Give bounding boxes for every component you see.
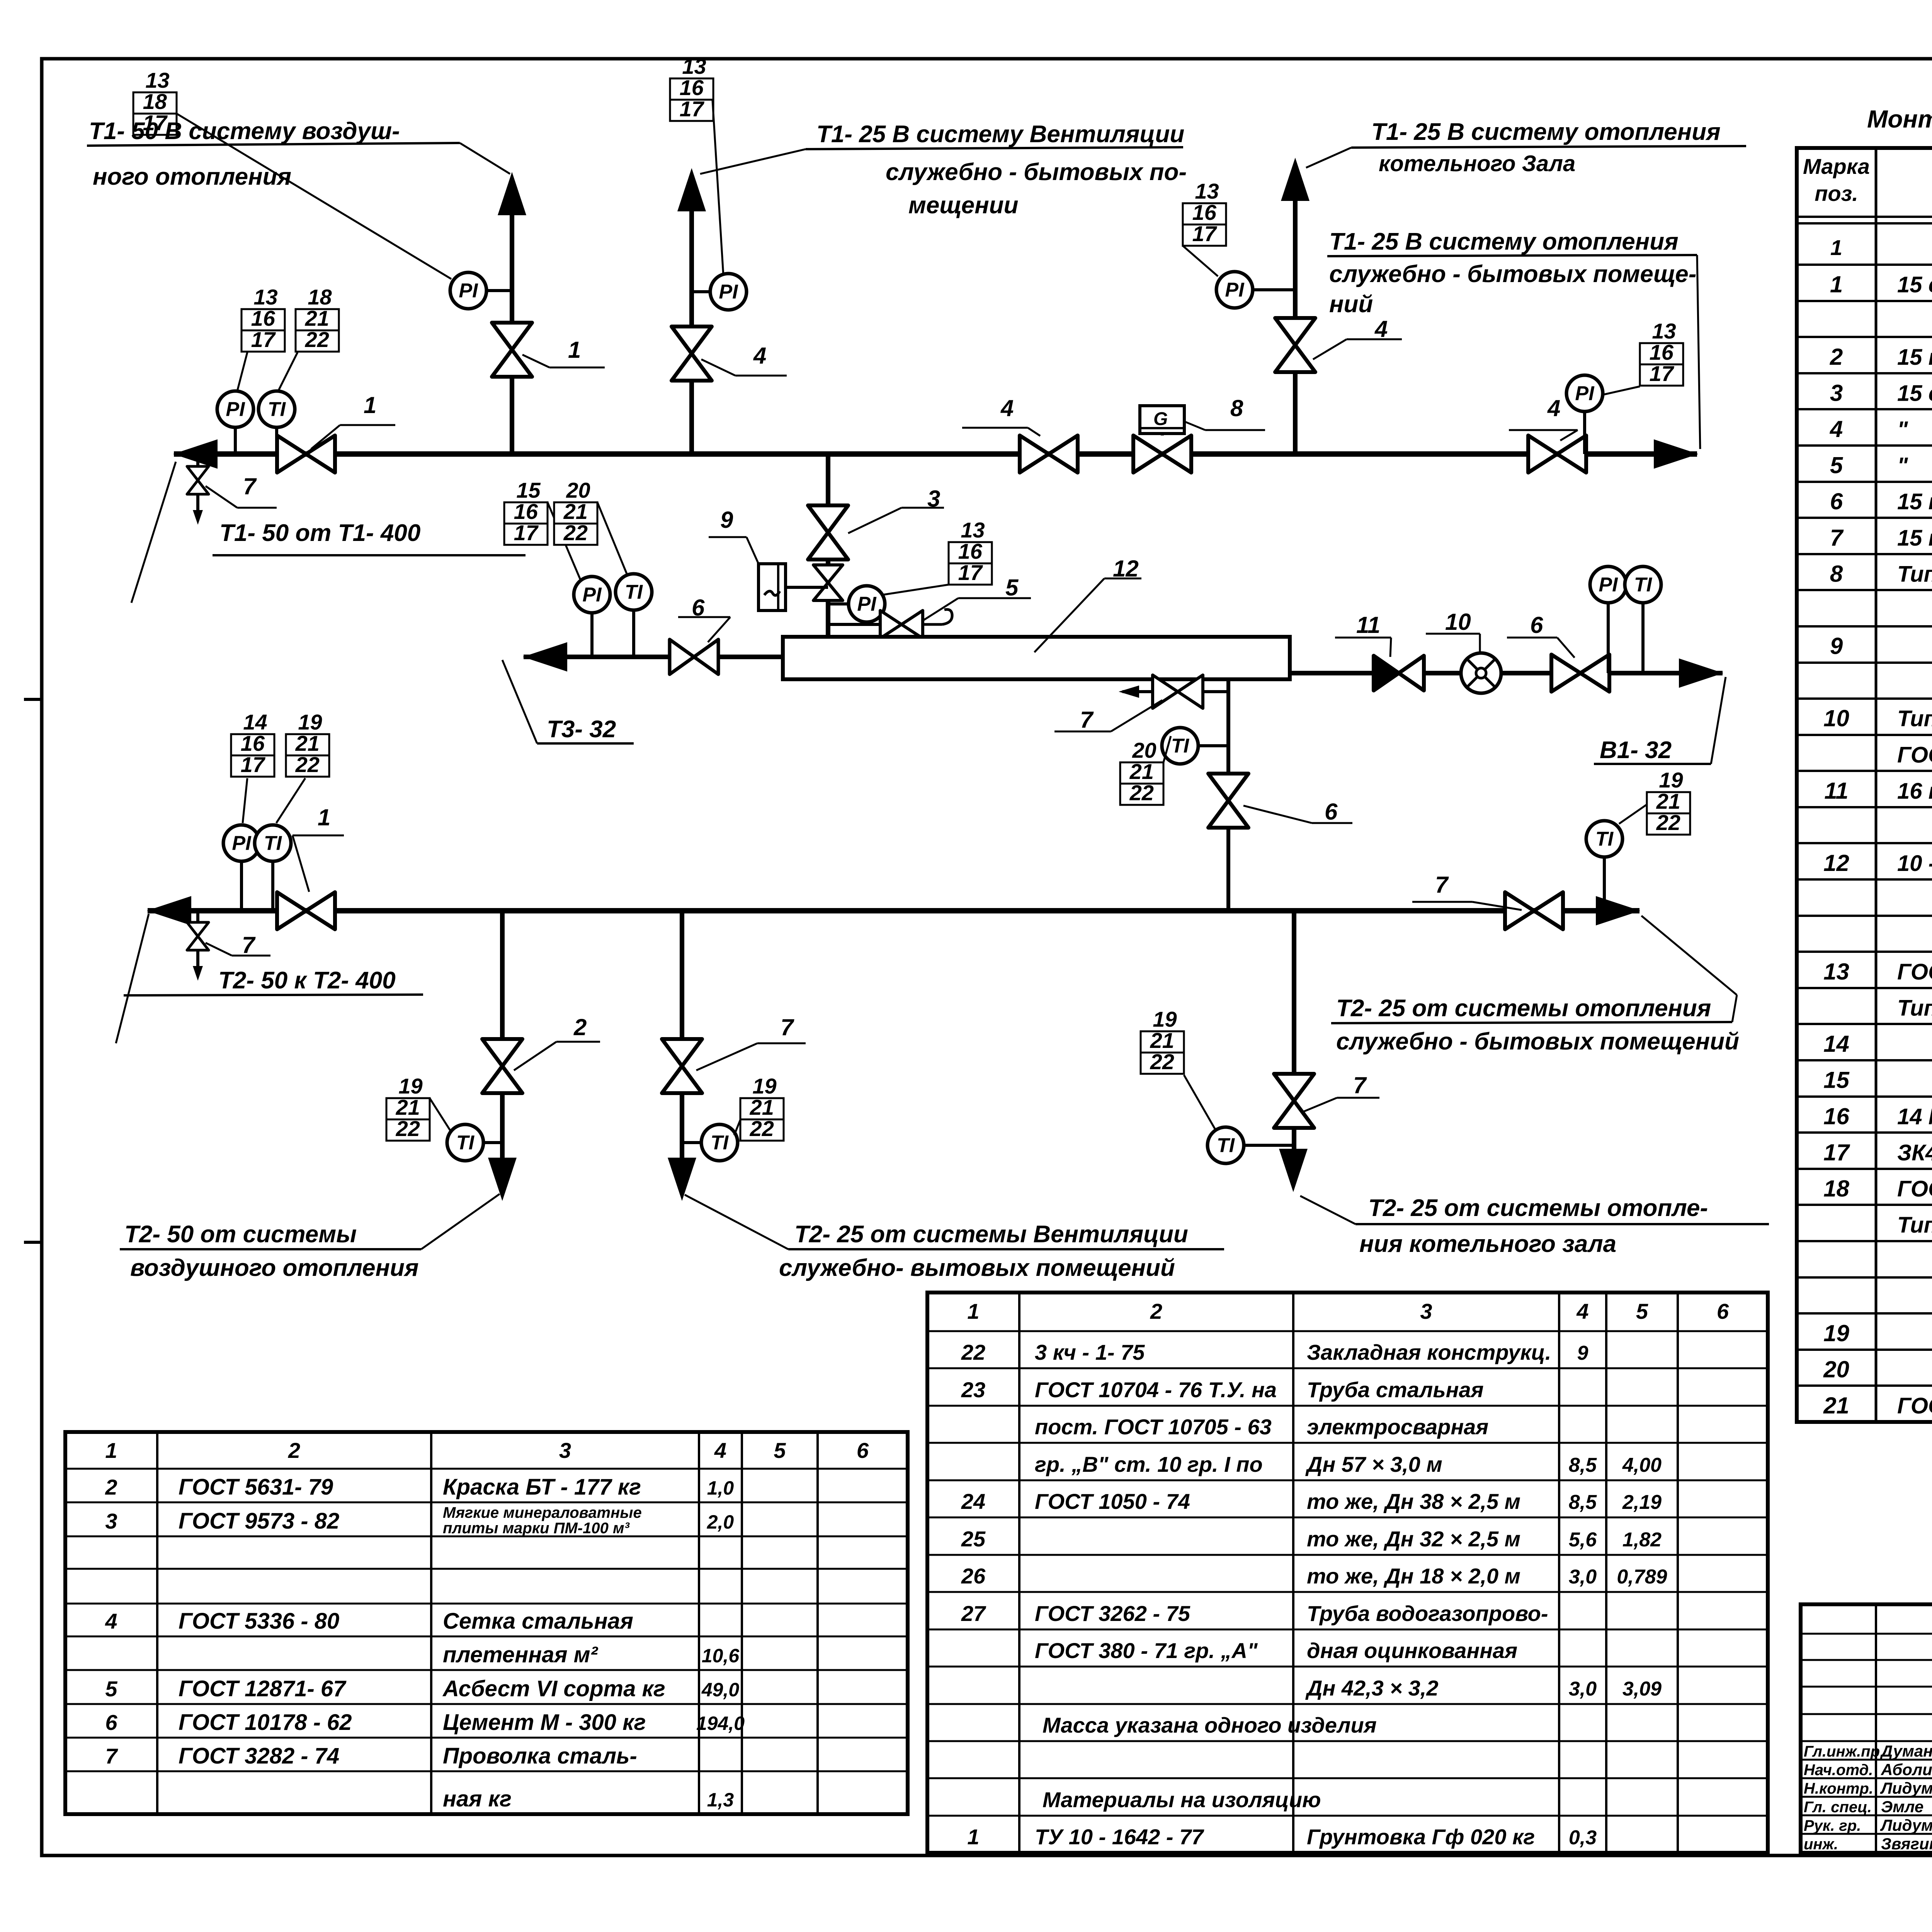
valve 3 (808, 505, 848, 560)
callout stack riser3 TI (1141, 1007, 1184, 1074)
callout stack return1 TI (386, 1074, 430, 1141)
label 7 T1 drain (206, 473, 277, 508)
callout stack T1 TI (296, 285, 339, 352)
svg-text:15 кч 16 п 1: 15 кч 16 п 1 (1897, 489, 1932, 514)
heater drain vertical (1226, 679, 1230, 911)
svg-text:воздушного отопления: воздушного отопления (130, 1255, 418, 1281)
svg-text:служебно- вытовых помещений: служебно- вытовых помещений (779, 1255, 1175, 1281)
svg-text:21: 21 (750, 1095, 774, 1119)
svg-text:1: 1 (967, 1825, 979, 1849)
gauge TI on T3 (616, 574, 652, 657)
svg-text:0,789: 0,789 (1617, 1566, 1667, 1588)
svg-text:19: 19 (398, 1074, 422, 1098)
svg-text:Тип УВК: Тип УВК (1897, 706, 1932, 731)
callout stack T1 PI (241, 285, 285, 352)
svg-text:ГОСТ 5631- 79: ГОСТ 5631- 79 (179, 1475, 333, 1500)
svg-text:Монтажная: Монтажная (1867, 105, 1932, 133)
svg-text:17: 17 (241, 752, 266, 777)
svg-text:Тип РР: Тип РР (1897, 561, 1932, 587)
label 6 T3 valve (678, 595, 730, 642)
valve 6 on B1 line (1551, 655, 1609, 692)
svg-text:5,6: 5,6 (1569, 1529, 1597, 1551)
valve 4 on riser 3 (1275, 318, 1315, 372)
label 7 T2 right valve (1412, 872, 1522, 910)
svg-text:Тип МТП: Тип МТП (1897, 995, 1932, 1020)
net label T1-25 ventilation (700, 121, 1187, 219)
svg-text:плетенная м²: плетенная м² (443, 1642, 599, 1667)
svg-text:10: 10 (1823, 706, 1849, 731)
gauge TI return riser 2 (682, 1124, 738, 1161)
arrow riser 2 top (677, 168, 706, 211)
arrow T2 right end (1596, 896, 1640, 925)
net label T2-50 to T2-400 (116, 914, 423, 1043)
svg-text:Материалы на изоляцию: Материалы на изоляцию (1043, 1787, 1321, 1812)
svg-text:17: 17 (251, 327, 276, 352)
svg-text:21: 21 (1129, 759, 1154, 784)
materials table middle grid (927, 1293, 1768, 1853)
callout stack riser3 (1183, 179, 1226, 246)
arrow T3 left end (523, 642, 567, 672)
svg-text:4: 4 (1830, 416, 1843, 442)
svg-text:27: 27 (961, 1601, 986, 1626)
svg-text:21: 21 (396, 1095, 420, 1119)
svg-text:TI: TI (625, 581, 643, 604)
net label T3-32 (502, 660, 634, 743)
svg-text:21: 21 (1823, 1393, 1849, 1418)
svg-text:21: 21 (563, 499, 588, 524)
svg-text:15 кч 19п: 15 кч 19п (1897, 526, 1932, 551)
svg-text:инж.: инж. (1804, 1836, 1838, 1853)
svg-text:16: 16 (1823, 1103, 1849, 1129)
return riser 2 vertical (680, 911, 684, 1159)
svg-text:ГОСТ 1050 - 74: ГОСТ 1050 - 74 (1035, 1489, 1190, 1514)
net label T1-25 service rooms heating (1327, 228, 1700, 449)
svg-text:Т2- 25 от системы отопле-: Т2- 25 от системы отопле- (1368, 1195, 1708, 1221)
drain valve 7 below T2 left (187, 911, 209, 981)
svg-text:2: 2 (288, 1438, 300, 1463)
callout stack T3 PI (504, 478, 548, 545)
svg-text:22: 22 (961, 1340, 985, 1364)
svg-text:PI: PI (1575, 383, 1595, 405)
label 1 T2 valve (293, 804, 344, 892)
svg-text:10,6: 10,6 (702, 1645, 740, 1667)
check valve 11 (1374, 656, 1424, 690)
svg-text:6: 6 (1830, 488, 1843, 514)
svg-text:1: 1 (364, 392, 376, 418)
svg-text:1: 1 (568, 337, 581, 363)
svg-text:ний: ний (1329, 291, 1373, 318)
valve 4 on T1 right (1528, 435, 1586, 473)
specification column numbers row (1830, 235, 1932, 260)
svg-text:22: 22 (1129, 781, 1154, 805)
regulator valve 9 with thermo relay (813, 565, 843, 600)
svg-text:4: 4 (105, 1609, 117, 1633)
svg-text:18: 18 (143, 89, 167, 114)
svg-text:Т2- 50 от системы: Т2- 50 от системы (124, 1221, 357, 1248)
svg-text:10 - 0 10 ст 34 - 588 - 68: 10 - 0 10 ст 34 - 588 - 68 (1897, 851, 1932, 876)
arrow T1 left end (173, 439, 218, 469)
svg-text:6: 6 (1717, 1299, 1729, 1323)
svg-text:TI: TI (1171, 735, 1190, 757)
svg-text:22: 22 (750, 1116, 774, 1141)
riser 1 vertical pipe (510, 195, 514, 454)
svg-text:5: 5 (774, 1438, 786, 1463)
gauge PI on T1 left (217, 391, 253, 454)
return riser 3 vertical (1292, 911, 1296, 1151)
svg-text:13: 13 (1823, 959, 1849, 985)
svg-text:7: 7 (105, 1744, 118, 1768)
svg-text:6: 6 (105, 1710, 117, 1735)
svg-text:ТУ 10 - 1642 - 77: ТУ 10 - 1642 - 77 (1035, 1825, 1204, 1849)
gauge TI on T1 left (259, 391, 295, 454)
svg-text:Марка: Марка (1803, 154, 1870, 179)
valve 7 on T2 right (1505, 892, 1563, 929)
valve 7 on return riser 2 (662, 1039, 702, 1093)
callout stack return2 TI (740, 1074, 784, 1141)
svg-text:3: 3 (1420, 1299, 1432, 1323)
arrow riser 3 top (1281, 158, 1310, 201)
svg-text:Эмле: Эмле (1881, 1798, 1923, 1816)
thermo relay box (759, 564, 828, 611)
gauge PI on T3 (574, 577, 610, 657)
svg-text:то же, Дн 38 × 2,5 м: то же, Дн 38 × 2,5 м (1307, 1489, 1520, 1514)
label 4 T1 valve4b (1509, 395, 1578, 440)
svg-text:23: 23 (961, 1378, 985, 1402)
svg-text:ГОСТ 10704 - 76 Т.У. на: ГОСТ 10704 - 76 Т.У. на (1035, 1378, 1277, 1402)
svg-text:Мягкие минераловатные: Мягкие минераловатные (443, 1504, 642, 1521)
svg-text:Т1- 50 В систему воздуш-: Т1- 50 В систему воздуш- (89, 118, 400, 145)
svg-text:14: 14 (1823, 1031, 1849, 1057)
svg-text:5: 5 (1005, 575, 1019, 600)
svg-text:Труба водогазопрово-: Труба водогазопрово- (1307, 1601, 1548, 1626)
arrow return riser 1 bottom (488, 1158, 517, 1201)
svg-text:9: 9 (1830, 633, 1843, 659)
label 2 return1 valve (514, 1014, 600, 1070)
label 4 T1 valve4a (962, 395, 1040, 436)
svg-text:ния котельного зала: ния котельного зала (1359, 1231, 1616, 1257)
svg-text:0,3: 0,3 (1569, 1827, 1597, 1849)
svg-text:TI: TI (456, 1132, 475, 1154)
drain valve 7 horizontal (1119, 675, 1228, 708)
svg-text:16: 16 (251, 306, 276, 330)
svg-text:7: 7 (242, 932, 256, 958)
svg-text:19: 19 (298, 710, 322, 734)
svg-text:13: 13 (961, 518, 985, 542)
svg-text:1: 1 (318, 804, 330, 830)
label 4 riser3 valve (1313, 316, 1402, 359)
valve 1 on riser 1 (492, 323, 532, 377)
svg-text:9: 9 (1577, 1342, 1588, 1364)
svg-text:15 кч 16 п 1: 15 кч 16 п 1 (1897, 345, 1932, 370)
svg-text:19: 19 (752, 1074, 776, 1098)
svg-text:14 М 1 - 1Б: 14 М 1 - 1Б (1897, 1104, 1932, 1129)
title block (1801, 1604, 1932, 1853)
svg-text:TI: TI (1217, 1134, 1235, 1157)
svg-text:ного отопления: ного отопления (93, 163, 291, 190)
label 10 meter (1426, 609, 1480, 654)
svg-text:20: 20 (1823, 1356, 1849, 1382)
svg-text:16: 16 (1650, 340, 1674, 364)
svg-text:17: 17 (680, 97, 705, 121)
svg-text:16: 16 (1192, 200, 1217, 224)
svg-text:PI: PI (582, 584, 602, 606)
label 5 drain valve (923, 575, 1031, 620)
svg-text:19: 19 (1823, 1320, 1849, 1346)
label 7 T2 drain (206, 932, 270, 958)
svg-text:12: 12 (1823, 850, 1849, 876)
svg-text:ГОСТ 601973: ГОСТ 601973 (1897, 742, 1932, 767)
pipe B1-32 line (1290, 671, 1723, 675)
gauge PI on B1 (1590, 566, 1626, 673)
svg-text:мещении: мещении (908, 192, 1018, 219)
arrow return riser 2 bottom (668, 1158, 696, 1201)
svg-text:Рук. гр.: Рук. гр. (1804, 1817, 1861, 1834)
flow regulator 8 on T1 (1133, 406, 1191, 473)
svg-text:8: 8 (1230, 395, 1243, 421)
valve 6 on T3 (670, 639, 718, 674)
svg-text:49,0: 49,0 (701, 1679, 740, 1701)
net label T2-25 from service rooms (1331, 916, 1739, 1055)
label 7 return3 valve (1303, 1072, 1379, 1112)
svg-text:PI: PI (226, 398, 245, 421)
gauge PI after valve 4 right (1566, 375, 1603, 454)
arrow T1 right end (1654, 439, 1698, 469)
label 11 check valve (1335, 612, 1391, 657)
svg-text:20: 20 (566, 478, 590, 502)
svg-text:1: 1 (1830, 235, 1842, 260)
valve 4 on T1 left (1020, 435, 1078, 473)
svg-text:служебно - бытовых помеще-: служебно - бытовых помеще- (1329, 261, 1696, 287)
svg-text:22: 22 (1150, 1049, 1174, 1074)
svg-text:22: 22 (1656, 810, 1680, 835)
svg-text:ГОСТ 3282 - 74: ГОСТ 3282 - 74 (179, 1743, 339, 1769)
water heater 12 (783, 637, 1290, 679)
callout stack riser2 (670, 54, 713, 121)
svg-text:14: 14 (243, 710, 267, 734)
svg-text:Т1- 25 В систему отопления: Т1- 25 В систему отопления (1329, 228, 1679, 255)
label 6 B1 valve (1507, 612, 1575, 658)
svg-text:TI: TI (1634, 574, 1653, 596)
svg-text:22: 22 (396, 1116, 420, 1141)
svg-text:служебно - бытовых помещений: служебно - бытовых помещений (1336, 1028, 1739, 1055)
net label T2-50 from air heating (120, 1194, 500, 1281)
valve 4 on riser 2 (672, 327, 712, 381)
callout stack T2 TI (286, 710, 329, 777)
svg-text:плиты марки ПМ-100 м³: плиты марки ПМ-100 м³ (443, 1520, 630, 1537)
svg-text:17: 17 (1650, 361, 1675, 386)
arrow B1 right end (1679, 658, 1723, 688)
arrow T2 left end (147, 896, 191, 925)
svg-text:20: 20 (1132, 738, 1156, 762)
svg-text:TI: TI (264, 832, 282, 855)
svg-text:1: 1 (105, 1438, 117, 1463)
svg-text:4: 4 (714, 1438, 726, 1463)
svg-text:3,09: 3,09 (1622, 1678, 1662, 1700)
valve 7 on return riser 3 (1274, 1074, 1314, 1128)
svg-text:194,0: 194,0 (696, 1713, 745, 1734)
svg-text:PI: PI (459, 280, 478, 302)
svg-text:PI: PI (719, 281, 738, 303)
svg-text:Сетка стальная: Сетка стальная (443, 1609, 633, 1634)
svg-text:17: 17 (1823, 1139, 1850, 1165)
svg-text:ЗК4 - 4Б - 70: ЗК4 - 4Б - 70 (1897, 1140, 1932, 1165)
valve 1 on T1 (277, 435, 335, 473)
arrow return riser 3 bottom (1279, 1149, 1308, 1192)
svg-text:Гл.инж.пр: Гл.инж.пр (1804, 1743, 1880, 1760)
svg-text:15 с 27 нж 1: 15 с 27 нж 1 (1897, 381, 1932, 406)
svg-text:9: 9 (720, 507, 733, 533)
svg-text:ГОСТ 5336 - 80: ГОСТ 5336 - 80 (179, 1609, 339, 1634)
specification table grid (1797, 148, 1932, 1422)
net label T1-50 to air heating (87, 118, 510, 190)
net label T2-25 from ventilation (685, 1195, 1224, 1281)
svg-text:В1- 32: В1- 32 (1600, 737, 1672, 764)
svg-text:21: 21 (1150, 1028, 1174, 1053)
svg-text:ГОСТ 3029 - 75: ГОСТ 3029 - 75 (1897, 1393, 1932, 1418)
svg-text:7: 7 (243, 473, 257, 499)
svg-text:4: 4 (1547, 395, 1560, 421)
svg-text:котельного Зала: котельного Зала (1379, 151, 1575, 176)
gauge PI at heater inlet (828, 586, 885, 622)
svg-text:6: 6 (1325, 799, 1338, 825)
svg-text:16: 16 (958, 539, 983, 563)
arrow riser 1 top (498, 172, 526, 215)
gauge TI heater outlet (1162, 728, 1228, 764)
svg-text:Закладная конструкц.: Закладная конструкц. (1307, 1340, 1551, 1364)
gauge TI on B1 (1625, 566, 1661, 673)
svg-text:2: 2 (1150, 1299, 1162, 1323)
callout stack T2 PI (231, 710, 274, 777)
svg-text:Лидумс: Лидумс (1880, 1816, 1932, 1834)
net label T1-25 boiler hall heating (1306, 119, 1746, 176)
svg-text:Цемент М - 300 кг: Цемент М - 300 кг (443, 1710, 646, 1735)
label 9 thermo valve (709, 507, 759, 564)
gauge PI riser 1 (450, 272, 512, 309)
valve 6 on drain (1208, 774, 1248, 828)
pipe T3-32 line (524, 655, 783, 659)
svg-text:17: 17 (514, 520, 539, 545)
drain valve 7 below T1 left (187, 454, 209, 525)
svg-text:17: 17 (958, 560, 983, 585)
label 7 return2 valve (696, 1014, 806, 1070)
label 1 T1 valve (311, 392, 395, 449)
svg-text:25: 25 (961, 1527, 986, 1551)
materials table left grid (65, 1432, 908, 1814)
gauge PI on T2 (223, 825, 260, 911)
svg-text:Думан: Думан (1880, 1742, 1932, 1760)
callout stack heater PI (949, 518, 992, 585)
svg-text:8: 8 (1830, 561, 1843, 587)
svg-text:ГОСТ 380 - 71 гр. „А": ГОСТ 380 - 71 гр. „А" (1035, 1638, 1258, 1663)
svg-text:то же, Дн 32 × 2,5 м: то же, Дн 32 × 2,5 м (1307, 1527, 1520, 1551)
callout stack valve4 PI (1640, 319, 1683, 386)
svg-text:PI: PI (232, 832, 252, 855)
svg-text:служебно - бытовых по-: служебно - бытовых по- (886, 159, 1187, 185)
svg-text:ГОСТ 10178 - 62: ГОСТ 10178 - 62 (179, 1710, 352, 1735)
svg-text:PI: PI (1599, 574, 1618, 596)
callout stack T2 right TI (1647, 768, 1690, 835)
svg-text:13: 13 (1195, 179, 1219, 203)
fold mark tick left upper (24, 698, 43, 701)
valve 2 on return riser 1 (482, 1039, 522, 1093)
svg-text:Труба стальная: Труба стальная (1307, 1378, 1484, 1402)
svg-text:18: 18 (1823, 1175, 1849, 1201)
svg-text:3: 3 (105, 1509, 117, 1533)
fold mark tick left lower (24, 1241, 43, 1244)
svg-text:15: 15 (516, 478, 541, 502)
svg-text:Проволка сталь-: Проволка сталь- (443, 1743, 637, 1769)
svg-text:Масса указана одног: Масса указана одного изделия (1043, 1713, 1377, 1737)
svg-text:5: 5 (1636, 1299, 1648, 1323)
svg-text:5: 5 (105, 1677, 117, 1701)
svg-text:ная: ная кг (443, 1786, 512, 1811)
gauge TI return riser 3 (1207, 1127, 1294, 1163)
svg-text:3,0: 3,0 (1569, 1678, 1597, 1700)
net label T1-50 from T1-400 (131, 462, 526, 603)
svg-text:10: 10 (1445, 609, 1471, 635)
svg-text:8,5: 8,5 (1569, 1491, 1597, 1514)
svg-text:Тип ТТ: Тип ТТ (1897, 1213, 1932, 1238)
svg-text:G: G (1153, 409, 1168, 429)
svg-text:7: 7 (1353, 1072, 1367, 1098)
svg-text:19: 19 (1659, 768, 1683, 792)
svg-text:13: 13 (253, 285, 277, 309)
svg-text:21: 21 (305, 306, 329, 330)
svg-text:Т1- 25 В систему Вентиляции: Т1- 25 В систему Вентиляции (816, 121, 1184, 148)
svg-text:3: 3 (1830, 380, 1843, 406)
svg-text:4: 4 (1374, 316, 1388, 342)
svg-text:13: 13 (682, 54, 706, 78)
svg-text:11: 11 (1356, 612, 1380, 638)
gauge TI on T2 right (1586, 821, 1622, 911)
svg-text:4: 4 (1576, 1299, 1588, 1323)
svg-text:1,0: 1,0 (707, 1477, 734, 1499)
svg-text:дная оцинкованная: дная оцинкованная (1307, 1638, 1517, 1663)
callout stack T3 TI (554, 478, 597, 545)
svg-text:ГОСТ 9573 - 82: ГОСТ 9573 - 82 (179, 1509, 339, 1534)
gauge PI riser 3 (1216, 272, 1295, 308)
svg-text:Т1- 50 от Т1- 400: Т1- 50 от Т1- 400 (219, 520, 420, 546)
svg-text:1: 1 (967, 1299, 979, 1323)
svg-text:1,82: 1,82 (1622, 1529, 1662, 1551)
label 8 regulator (1185, 395, 1265, 430)
svg-text:2: 2 (573, 1014, 587, 1040)
svg-text:16 кч 9п: 16 кч 9п (1897, 779, 1932, 804)
svg-text:1: 1 (1830, 272, 1843, 298)
svg-text:16: 16 (680, 75, 704, 100)
svg-text:Асбест VI сорта кг: Асбест VI сорта кг (442, 1676, 665, 1701)
svg-text:26: 26 (961, 1564, 986, 1588)
svg-text:Лидумс: Лидумс (1880, 1779, 1932, 1797)
svg-text:7: 7 (1435, 872, 1449, 898)
svg-text:4: 4 (1000, 395, 1014, 421)
label 6 drain valve (1243, 799, 1352, 825)
svg-text:21: 21 (295, 731, 320, 755)
svg-text:PI: PI (1225, 279, 1245, 301)
svg-text:7: 7 (1080, 707, 1094, 733)
net label T2-25 from boiler hall (1300, 1195, 1769, 1257)
svg-text:пост. ГОСТ 10705 - 63: пост. ГОСТ 10705 - 63 (1035, 1415, 1272, 1439)
label 1 riser1 valve (522, 337, 605, 367)
callout stack drain TI (1120, 738, 1163, 805)
callout stack riser1 (133, 68, 177, 135)
materials table middle text (961, 1299, 1729, 1849)
svg-text:16: 16 (514, 499, 538, 524)
return riser 1 vertical (500, 911, 505, 1159)
svg-text:то же, Дн 18 × 2,0 м: то же, Дн 18 × 2,0 м (1307, 1564, 1520, 1588)
label 3 bypass valve (848, 486, 944, 533)
svg-text:Аболин: Аболин (1881, 1760, 1932, 1779)
